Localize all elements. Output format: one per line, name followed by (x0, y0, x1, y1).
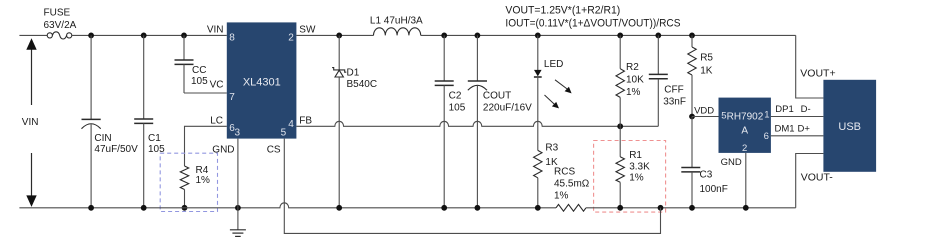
svg-text:L1 47uH/3A: L1 47uH/3A (370, 16, 423, 27)
svg-text:VC: VC (210, 80, 224, 91)
svg-text:LC: LC (210, 115, 223, 126)
node junction C2 top (441, 33, 447, 39)
svg-text:4: 4 (288, 119, 294, 130)
svg-text:VOUT+: VOUT+ (800, 67, 835, 79)
op-amp U2 RH7902A (USB charge controller) (719, 98, 771, 153)
capacitor COUT 220uF/16V (476, 35, 478, 81)
svg-text:C2: C2 (449, 91, 462, 102)
svg-text:R1: R1 (629, 150, 642, 161)
op-amp U1 XL4301 (regulator IC) (227, 22, 297, 138)
svg-text:FUSE: FUSE (44, 8, 71, 19)
node junction R1 bottom (617, 205, 623, 211)
svg-text:A: A (741, 126, 748, 137)
resistor RCS 45.5mohm current sense (556, 204, 586, 211)
LED emission arrow 2 (545, 95, 556, 105)
wire bottom rail left of RCS (hops over CS sense wire) (19, 203, 556, 208)
highlight box R1 (red dashed) (594, 141, 666, 213)
svg-text:33nF: 33nF (663, 97, 686, 108)
wire GND pin3 to ground (237, 139, 239, 230)
wire FB line with hops (296, 121, 658, 126)
svg-text:RH7902: RH7902 (727, 111, 764, 122)
svg-text:DP1: DP1 (775, 104, 793, 115)
svg-text:1%: 1% (629, 172, 644, 183)
svg-text:2: 2 (288, 33, 294, 44)
svg-text:CIN: CIN (94, 133, 111, 144)
svg-text:5: 5 (281, 128, 287, 139)
highlight box R4 (blue dashed) (160, 153, 217, 211)
svg-text:D1: D1 (347, 67, 360, 78)
node junction FB divider (617, 123, 623, 129)
diode D1 B540C (schottky) (338, 35, 340, 70)
svg-text:1%: 1% (554, 190, 569, 201)
svg-text:1K: 1K (700, 66, 713, 77)
capacitor C2 105 (443, 35, 445, 81)
svg-text:63V/2A: 63V/2A (44, 20, 77, 31)
node junction C2 bottom (441, 205, 447, 211)
wire bottom rail right of RCS (586, 207, 796, 209)
resistor R4 1% (180, 166, 188, 190)
wire inductor to VOUT corner (421, 34, 796, 36)
LED indicator (537, 35, 539, 70)
capacitor CIN 47uF/50V (90, 35, 92, 119)
svg-text:RCS: RCS (554, 166, 575, 177)
node junction R2 top (617, 33, 623, 39)
node junction CC top (181, 33, 187, 39)
svg-text:CC: CC (192, 65, 206, 76)
USB connector J1 (823, 80, 876, 172)
svg-text:COUT: COUT (483, 91, 511, 102)
node junction VDD (689, 114, 695, 120)
resistor R3 1K (534, 150, 542, 177)
node junction CS return (658, 205, 664, 211)
svg-text:C3: C3 (700, 170, 713, 181)
svg-text:6: 6 (764, 131, 769, 142)
svg-text:R2: R2 (626, 62, 639, 73)
capacitor C1 105 (143, 35, 145, 119)
node junction CIN bottom (88, 205, 94, 211)
svg-text:VOUT-: VOUT- (801, 171, 834, 183)
svg-text:IOUT=(0.11V*(1+ΔVOUT/VOUT))/RC: IOUT=(0.11V*(1+ΔVOUT/VOUT))/RCS (505, 17, 680, 29)
svg-text:VOUT=1.25V*(1+R2/R1): VOUT=1.25V*(1+R2/R1) (505, 4, 620, 16)
svg-text:45.5mΩ: 45.5mΩ (554, 178, 590, 189)
svg-text:1%: 1% (626, 87, 641, 98)
inductor L1 47uH/3A (374, 28, 421, 36)
svg-text:USB: USB (838, 121, 861, 133)
node junction CIN top (88, 33, 94, 39)
svg-text:CFF: CFF (664, 85, 683, 96)
LED emission arrow 1 (555, 80, 569, 90)
svg-text:D-: D- (801, 104, 811, 115)
svg-text:3.3K: 3.3K (629, 161, 650, 172)
svg-text:CS: CS (267, 144, 281, 155)
node junction COUT top (475, 33, 481, 39)
pin 1 DP1 wire to D- (771, 116, 824, 118)
node junction CFF top (655, 33, 661, 39)
wire SW to inductor (296, 34, 373, 36)
VIN measurement arrow up (31, 44, 33, 105)
capacitor CC 105 (183, 35, 185, 60)
svg-text:105: 105 (191, 76, 208, 87)
svg-text:7: 7 (229, 92, 235, 103)
node junction RH7902 GND (743, 205, 749, 211)
svg-text:DM1: DM1 (775, 124, 795, 135)
svg-text:3: 3 (235, 128, 241, 139)
svg-text:100nF: 100nF (700, 184, 728, 195)
capacitor C3 100nF (691, 117, 693, 168)
svg-text:C1: C1 (148, 133, 161, 144)
svg-text:XL4301: XL4301 (243, 77, 281, 89)
svg-text:FB: FB (299, 115, 312, 126)
svg-text:SW: SW (299, 24, 316, 35)
resistor R1 3.3K 1% (619, 126, 621, 157)
svg-text:10K: 10K (626, 75, 644, 86)
pin 6 DM1 wire to D+ (771, 135, 824, 137)
capacitor CFF 33nF (657, 35, 659, 74)
svg-text:VDD: VDD (694, 106, 714, 117)
wire top rail fuse to pin8 (72, 34, 227, 36)
resistor R2 10K 1% (619, 35, 621, 68)
VIN measurement arrow down (31, 153, 33, 199)
node junction GND pin3 (235, 205, 241, 211)
svg-text:47uF/50V: 47uF/50V (94, 144, 138, 155)
wire VOUT+ branch (796, 35, 824, 98)
svg-text:1: 1 (764, 110, 769, 121)
svg-text:B540C: B540C (347, 79, 378, 90)
resistor R5 1K (691, 35, 693, 47)
svg-text:D+: D+ (798, 124, 811, 135)
ground symbol (230, 229, 246, 231)
svg-text:VIN: VIN (207, 24, 224, 35)
svg-text:220uF/16V: 220uF/16V (483, 103, 532, 114)
svg-text:VIN: VIN (22, 117, 39, 128)
svg-text:GND: GND (212, 144, 234, 155)
node junction R3 bottom (535, 205, 541, 211)
svg-text:2: 2 (742, 143, 747, 154)
svg-text:R5: R5 (700, 53, 713, 64)
svg-text:R3: R3 (545, 142, 558, 153)
svg-text:GND: GND (721, 157, 742, 168)
svg-text:1%: 1% (196, 175, 211, 186)
svg-text:105: 105 (449, 103, 466, 114)
fuse F1 63V/2A (47, 33, 52, 38)
node junction C3 bottom (689, 205, 695, 211)
node junction LED top (535, 33, 541, 39)
wire LC pin6 (185, 126, 227, 166)
wire VDD pin5 (692, 116, 719, 118)
node junction C1 top (141, 33, 147, 39)
wire VC pin7 (184, 92, 227, 94)
wire VOUT- branch (796, 154, 824, 208)
node junction C1 bottom (141, 205, 147, 211)
svg-text:8: 8 (229, 33, 235, 44)
wire top rail VIN segment left (19, 34, 47, 36)
node junction R5 top (689, 33, 695, 39)
node junction D1 bottom (336, 205, 342, 211)
node junction D1 top (336, 33, 342, 39)
node junction COUT bottom (475, 205, 481, 211)
wire CS sense line (284, 139, 660, 234)
svg-text:LED: LED (544, 59, 563, 70)
